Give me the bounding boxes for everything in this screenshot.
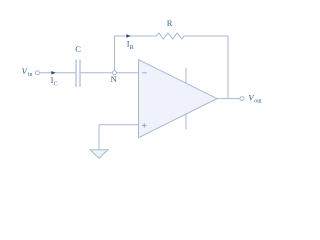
label Vout: [248, 92, 262, 104]
wire plus input: [99, 124, 139, 126]
svg-text:N: N: [111, 74, 117, 84]
svg-text:C: C: [54, 82, 58, 88]
op-amp bottom power stub: [185, 114, 187, 130]
current arrow IC: [51, 71, 55, 75]
op-amp minus sign: [142, 72, 146, 74]
node Vout terminal: [240, 97, 244, 101]
resistor R1 zigzag: [157, 33, 185, 39]
op-amp plus sign: [142, 123, 146, 127]
node Vin terminal label: [22, 66, 33, 78]
svg-text:R: R: [130, 45, 134, 51]
wire down to ground: [98, 125, 100, 150]
wire opamp output: [217, 98, 240, 100]
svg-text:out: out: [254, 98, 262, 104]
wire node N up: [114, 36, 116, 71]
wire feedback down: [227, 36, 229, 99]
node N: [113, 71, 117, 75]
svg-text:C: C: [75, 44, 81, 54]
svg-text:in: in: [28, 72, 33, 78]
svg-text:R: R: [167, 18, 173, 28]
wire Vin to capacitor: [40, 72, 77, 74]
op-amp U1 body: [139, 60, 218, 138]
op-amp top power stub: [185, 68, 187, 84]
capacitor C1 plates: [75, 60, 77, 88]
wire resistor to corner: [184, 35, 228, 37]
wire node N to opamp minus input: [117, 72, 139, 74]
current arrow IR: [126, 34, 130, 38]
ground: [90, 150, 108, 159]
wire top horizontal to resistor: [114, 35, 157, 37]
wire capacitor to node N: [80, 72, 113, 74]
node Vin terminal: [35, 71, 39, 75]
label IC: [51, 75, 58, 88]
label IR: [127, 38, 134, 51]
